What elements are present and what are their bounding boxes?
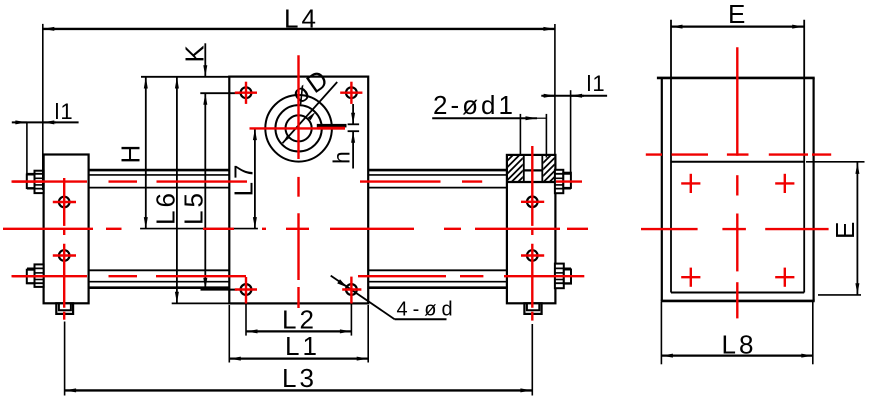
bottom guide rod (left section)	[89, 270, 230, 287]
left block vertical centerline	[63, 178, 65, 320]
crosshair hole bottom-right	[342, 277, 361, 304]
clamp inner walls	[524, 155, 543, 182]
mounting hole top-right	[346, 87, 357, 98]
svg-text:l1: l1	[55, 99, 74, 124]
top guide rod (right section)	[368, 170, 507, 188]
crosshair right block holes	[521, 202, 544, 256]
side view step line	[671, 161, 804, 163]
left end block	[44, 155, 89, 304]
svg-text:H: H	[116, 142, 146, 164]
left block lower hole	[59, 250, 70, 261]
dimension L4	[43, 4, 555, 191]
right block upper hole	[527, 197, 538, 208]
side view square plate outline	[657, 78, 815, 301]
bottom rod centerline	[12, 275, 585, 277]
mounting hole bottom-right	[346, 284, 357, 295]
leader 4-od	[331, 276, 458, 321]
svg-text:L3: L3	[282, 363, 317, 393]
top rod centerline	[12, 180, 583, 182]
dimension H	[116, 77, 146, 229]
side view inner face edges / E extension lines	[671, 20, 804, 293]
dimension E top	[671, 0, 804, 29]
main horizontal centerline	[3, 228, 588, 230]
svg-text:2-ød1: 2-ød1	[433, 90, 516, 120]
dimension K	[180, 42, 210, 77]
crosshair hole top-right	[340, 82, 362, 104]
svg-text:h: h	[329, 151, 355, 164]
dimension l1 left	[12, 99, 79, 175]
side view upper horizontal centerline	[646, 153, 831, 155]
right end block	[507, 155, 556, 303]
top guide rod (left section)	[89, 170, 230, 188]
svg-text:L5: L5	[179, 190, 209, 225]
right top bolt	[555, 170, 571, 193]
left block foot tab	[56, 303, 73, 314]
body top edge extension line	[141, 76, 229, 78]
dimension h	[329, 104, 360, 169]
body vertical centerline	[297, 55, 299, 308]
svg-text:L4: L4	[284, 4, 319, 34]
rod edge through clamp	[524, 169, 543, 171]
shaft boss horizontal centerline	[250, 127, 346, 129]
left bottom bolt	[27, 264, 44, 287]
svg-text:E: E	[830, 219, 860, 239]
dimension 2-od1	[432, 90, 546, 158]
dimension L6	[151, 77, 181, 303]
crosshair hole top-left	[235, 82, 257, 104]
side view hole cross bottom-left	[681, 268, 700, 287]
mounting hole top-left	[241, 87, 252, 98]
right block foot tab	[524, 303, 541, 314]
svg-text:L7: L7	[229, 162, 259, 197]
crosshair hole bottom-left	[235, 277, 257, 304]
svg-text:L2: L2	[282, 305, 317, 335]
left bolts centerline stubs	[13, 182, 44, 277]
svg-text:L1: L1	[285, 331, 320, 361]
svg-text:L6: L6	[151, 190, 181, 225]
centerline dimension reference segment	[140, 228, 258, 230]
side view vertical centerline	[736, 47, 738, 318]
dimension L5	[179, 93, 241, 289]
bottom guide rod (right section)	[368, 270, 507, 287]
left block upper hole	[59, 197, 70, 208]
body bottom edge extension line	[172, 302, 230, 304]
mounting hole bottom-left	[241, 284, 252, 295]
svg-text:l1: l1	[587, 71, 606, 96]
side view hole cross top-right	[775, 174, 794, 193]
side view inner bottom line	[671, 292, 804, 294]
dimension l1 right	[541, 71, 607, 173]
dimension L8	[661, 302, 812, 364]
dimension E right	[806, 162, 865, 295]
left top bolt	[27, 171, 44, 193]
clamp hatching right cell	[534, 146, 575, 195]
dimension L1	[229, 305, 368, 363]
shaft boss circles (oD)	[265, 95, 332, 162]
svg-text:L8: L8	[722, 330, 757, 360]
side view middle horizontal centerline	[641, 228, 829, 230]
dimension L3	[65, 322, 533, 396]
svg-text:E: E	[728, 0, 748, 29]
right bottom bolt	[555, 264, 571, 289]
dimension oD diagonal	[283, 62, 338, 143]
key tongue bar	[317, 124, 347, 128]
dimension L2	[246, 305, 351, 336]
crosshair left block holes	[53, 202, 76, 256]
right block lower hole	[527, 250, 538, 261]
body plate (front view)	[229, 77, 368, 304]
right block vertical centerline	[531, 146, 533, 321]
clamp hatching left cell	[496, 146, 540, 196]
side view hole cross top-left	[681, 174, 700, 193]
side view hole cross bottom-right	[775, 268, 794, 287]
svg-text:K: K	[180, 42, 210, 62]
svg-text:4-ød: 4-ød	[397, 299, 458, 321]
key tongue red bar	[318, 127, 346, 130]
dimension L7	[229, 129, 259, 229]
clamp section bottom edge	[507, 181, 556, 183]
